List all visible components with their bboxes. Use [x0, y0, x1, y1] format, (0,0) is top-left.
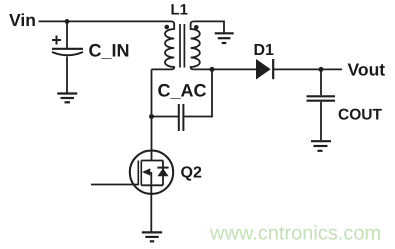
polarity dot (secondary)	[194, 25, 199, 30]
node junction Vin/C_IN	[65, 19, 70, 24]
svg-text:C_AC: C_AC	[158, 81, 207, 101]
svg-text:C_IN: C_IN	[89, 40, 130, 60]
inductor L1 secondary winding	[191, 21, 200, 69]
capacitor C_IN	[52, 21, 83, 92]
svg-text:Vout: Vout	[348, 59, 386, 79]
svg-text:Vin: Vin	[9, 10, 36, 30]
wire secondary top to ground	[194, 21, 224, 32]
wire secondary bottom to diode	[194, 68, 257, 70]
wire primary bottom to drain node	[152, 68, 172, 70]
ground (secondary top)	[215, 33, 234, 43]
wire (gate lead)	[91, 184, 138, 186]
wire C_AC left	[152, 116, 179, 118]
svg-text:COUT: COUT	[338, 107, 382, 124]
polarity dot (primary)	[165, 25, 170, 30]
svg-text:L1: L1	[171, 2, 189, 19]
svg-text:www.cntronics.com: www.cntronics.com	[209, 223, 381, 245]
inductor L1 primary winding	[165, 21, 174, 69]
node junction drain/C_AC	[149, 114, 154, 119]
ground (below C_IN)	[57, 94, 77, 103]
wire D1 cathode to Vout	[273, 68, 342, 70]
capacitor C_AC	[179, 104, 184, 131]
svg-text:Q2: Q2	[181, 165, 202, 182]
capacitor COUT	[307, 69, 336, 140]
wire Vin to L1 primary top	[39, 20, 172, 22]
wire source to ground	[150, 185, 152, 232]
transformer core	[180, 24, 184, 68]
node junction secondary/C_AC/D1	[210, 67, 215, 72]
svg-text:D1: D1	[254, 42, 275, 59]
ground (below COUT)	[311, 141, 331, 151]
transistor Q2 (N-MOSFET with body diode)	[130, 151, 173, 194]
node junction Vout/COUT	[319, 67, 324, 72]
diode D1	[257, 59, 274, 79]
wire C_AC right to secondary bottom	[184, 69, 212, 116]
ground (Q2 source)	[142, 232, 162, 241]
wire drain vertical	[151, 69, 153, 160]
